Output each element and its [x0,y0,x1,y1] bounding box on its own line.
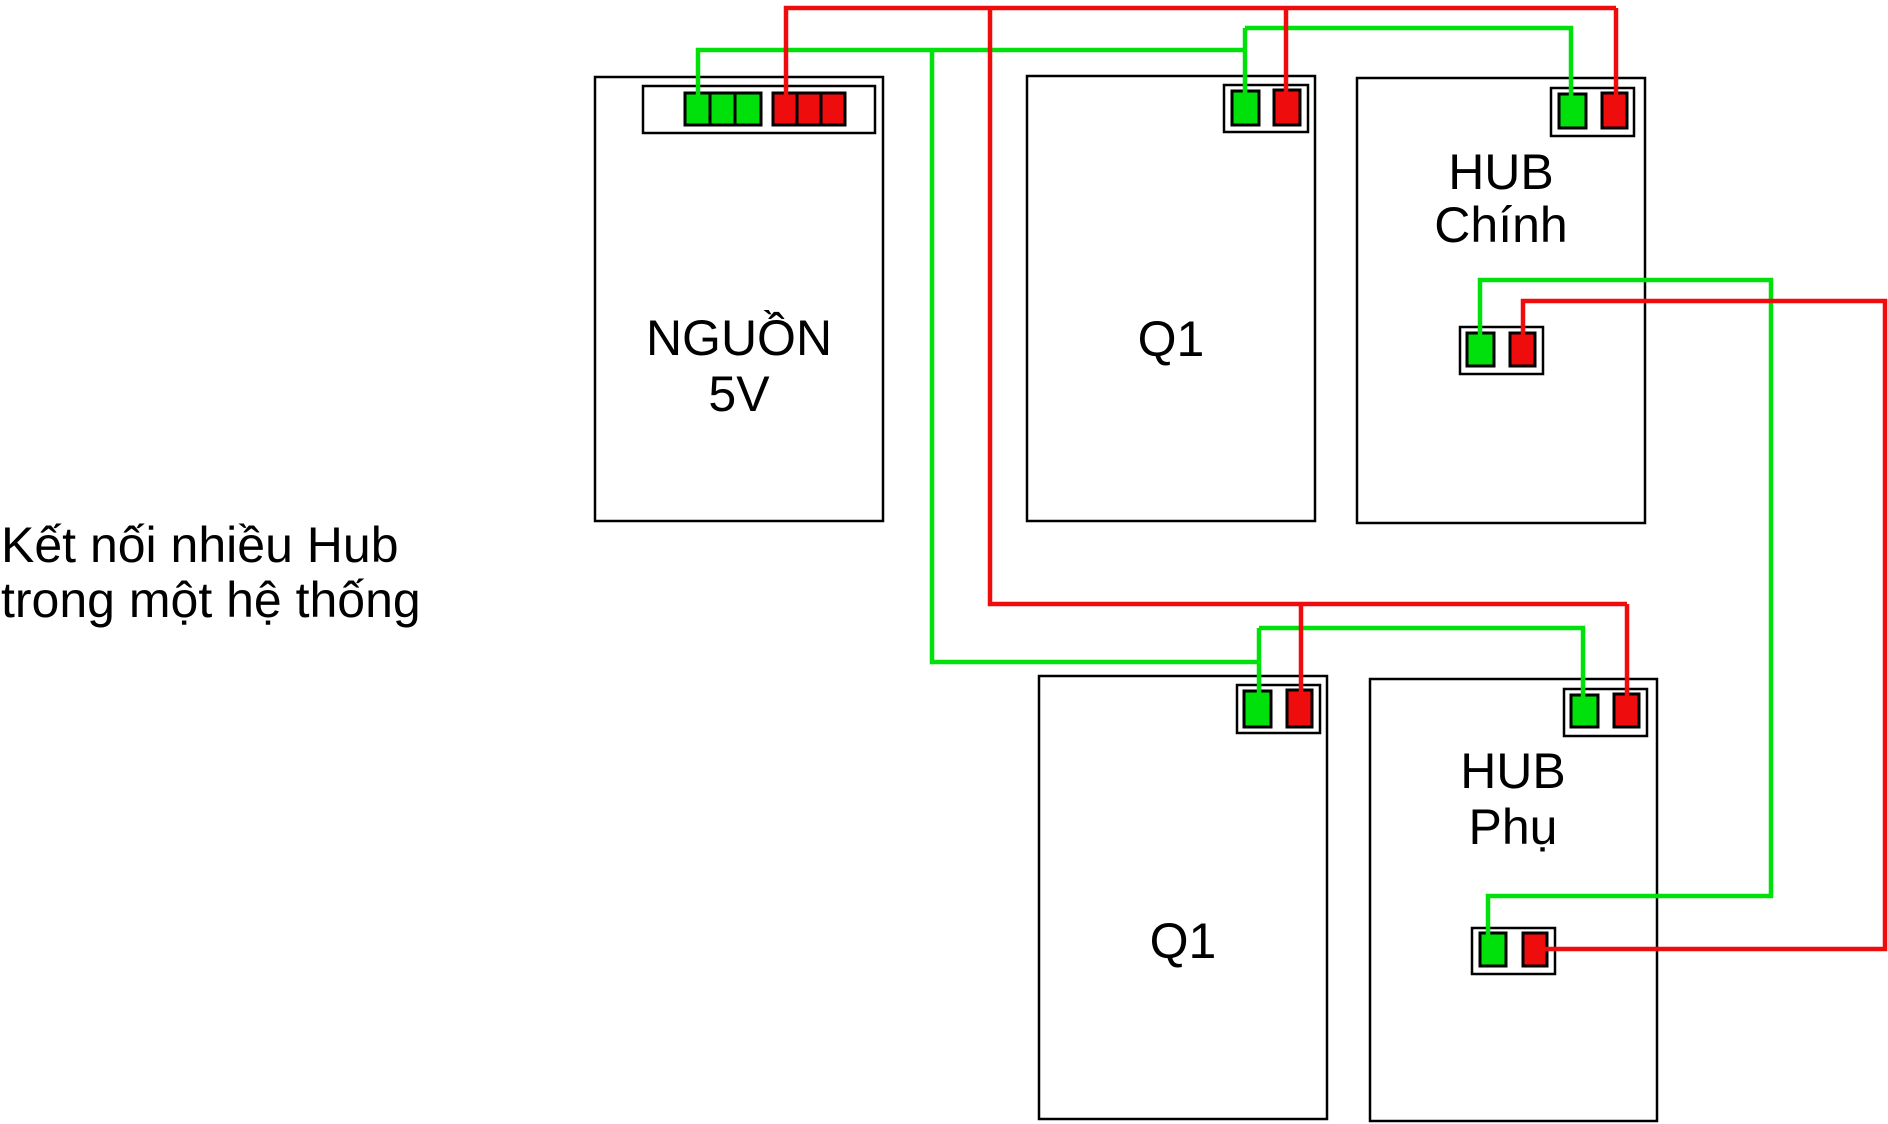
port Q1 bottom green terminal [1244,691,1271,727]
svg-text:HUB: HUB [1460,743,1566,799]
port HUB Phu bottom red terminal [1523,933,1547,966]
svg-text:Chính: Chính [1434,197,1567,253]
svg-text:trong một hệ thống: trong một hệ thống [1,572,421,628]
port HUB Phu top [1564,689,1647,736]
port Q1 top red terminal [1274,90,1300,125]
port HUB Phu top red terminal [1614,694,1639,727]
wire green long drop to lower junction [932,50,1259,662]
terminal green cell 2 NGUON [710,93,735,125]
label NGUON 5V [646,310,832,422]
port HUB Phu bottom green terminal [1480,933,1506,966]
wire red NGUON up-across top [786,8,1616,100]
svg-text:Q1: Q1 [1150,913,1217,969]
port HUB Chinh middle green terminal [1467,333,1494,366]
terminal red cell 3 NGUON [821,93,845,125]
wire green across to HUB Phu top and drop [1259,628,1583,703]
port HUB Chinh top [1551,88,1634,136]
wire red drop into Q1 bottom [1299,604,1304,698]
caption text left [1,517,421,628]
svg-text:NGUỒN: NGUỒN [646,310,832,366]
port Q1 top green terminal [1232,91,1259,125]
box Q1 bottom [1039,676,1327,1119]
label HUB Phu [1460,743,1566,855]
wire green across to HUB Chinh and drop [1245,28,1571,102]
svg-text:5V: 5V [708,366,770,422]
wire red drop into HUB Chinh top [1614,8,1619,101]
terminal strip NGUON [643,86,875,133]
svg-text:HUB: HUB [1448,144,1554,200]
terminal green cell 3 NGUON [735,93,761,125]
box Q1 top [1027,76,1315,521]
port HUB Phu bottom [1472,928,1555,974]
svg-text:Phụ: Phụ [1469,799,1558,855]
port HUB Chinh top red terminal [1602,93,1627,128]
terminal green cell 1 NGUON [685,93,710,125]
port Q1 bottom [1237,685,1320,733]
svg-text:Q1: Q1 [1138,311,1205,367]
box HUB Phu [1370,679,1657,1121]
port HUB Chinh middle [1460,327,1543,374]
terminal red cell 1 NGUON [773,93,797,125]
port HUB Chinh top green terminal [1559,94,1586,128]
wire red drop into HUB Phu top [1625,604,1630,702]
wire red HUB Chinh middle to HUB Phu bottom [1523,301,1885,949]
wire green NGUON up-across to junction [698,50,1245,102]
port Q1 bottom red terminal [1287,690,1312,727]
terminal red cell 2 NGUON [797,93,821,125]
wire red drop into Q1 top [1284,8,1289,98]
port Q1 top [1224,85,1308,132]
wire green HUB Chinh middle to HUB Phu bottom [1480,280,1771,945]
wire green drop into Q1 top [1243,28,1248,99]
svg-text:Kết nối nhiều Hub: Kết nối nhiều Hub [1,517,399,573]
port HUB Phu top green terminal [1571,695,1598,727]
port HUB Chinh middle red terminal [1510,333,1535,366]
box HUB Chinh [1357,78,1645,523]
box NGUON 5V (power supply) [595,77,883,521]
wire green drop into Q1 bottom [1257,628,1262,699]
label HUB Chinh [1434,144,1567,253]
wire red long drop and across lower [990,8,1627,604]
